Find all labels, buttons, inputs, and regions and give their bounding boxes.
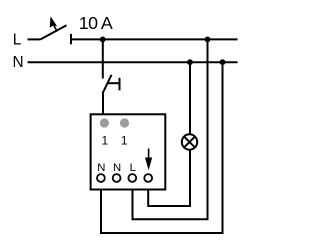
svg-text:10 A: 10 A <box>79 13 113 33</box>
svg-text:1: 1 <box>101 134 108 148</box>
svg-text:N: N <box>13 54 24 71</box>
svg-text:N: N <box>97 162 105 174</box>
svg-text:L: L <box>130 162 136 174</box>
svg-text:1: 1 <box>121 134 128 148</box>
svg-text:L: L <box>13 32 22 49</box>
svg-text:N: N <box>113 162 121 174</box>
